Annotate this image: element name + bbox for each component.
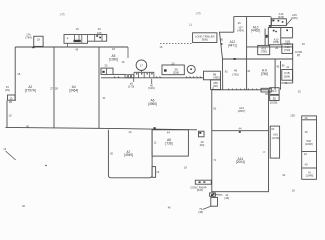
svg-text:[2667]: [2667] bbox=[238, 109, 246, 113]
svg-text:138: 138 bbox=[290, 113, 295, 117]
svg-text:[455]: [455] bbox=[214, 76, 220, 80]
svg-text:[756]: [756] bbox=[261, 72, 268, 76]
svg-text:[4471]: [4471] bbox=[228, 43, 237, 47]
svg-text:90: 90 bbox=[220, 38, 223, 42]
svg-text:[790]: [790] bbox=[261, 50, 267, 54]
svg-text:[46]: [46] bbox=[225, 196, 230, 200]
svg-text:[1018]: [1018] bbox=[272, 136, 280, 140]
svg-text:[1048]: [1048] bbox=[305, 142, 313, 146]
svg-text:B2: B2 bbox=[273, 96, 277, 100]
svg-text:28: 28 bbox=[55, 86, 58, 90]
svg-text:44: 44 bbox=[282, 173, 285, 177]
svg-text:B-2: B-2 bbox=[272, 89, 277, 93]
svg-text:[736]: [736] bbox=[165, 141, 172, 145]
svg-text:[48]: [48] bbox=[198, 210, 203, 214]
svg-text:90: 90 bbox=[271, 127, 274, 131]
svg-text:[94]: [94] bbox=[200, 143, 205, 147]
svg-text:[906]: [906] bbox=[202, 38, 208, 42]
svg-text:[4949]: [4949] bbox=[124, 153, 133, 157]
svg-text:15: 15 bbox=[302, 42, 305, 46]
svg-text:[296]: [296] bbox=[173, 71, 179, 75]
svg-text:45: 45 bbox=[276, 65, 279, 69]
svg-text:44: 44 bbox=[305, 116, 308, 120]
svg-text:40: 40 bbox=[22, 204, 25, 208]
svg-text:18: 18 bbox=[37, 38, 40, 42]
svg-text:145: 145 bbox=[195, 12, 201, 16]
svg-text:[790]: [790] bbox=[284, 48, 290, 52]
svg-text:11: 11 bbox=[154, 141, 157, 145]
svg-text:90: 90 bbox=[26, 125, 29, 129]
svg-text:44: 44 bbox=[167, 130, 170, 134]
svg-text:[945]: [945] bbox=[291, 16, 297, 20]
svg-text:15: 15 bbox=[298, 90, 301, 94]
svg-text:19: 19 bbox=[292, 189, 295, 193]
svg-text:[4960]: [4960] bbox=[148, 102, 157, 106]
svg-text:19: 19 bbox=[76, 27, 79, 31]
svg-text:P1B: P1B bbox=[284, 71, 289, 75]
svg-text:16: 16 bbox=[159, 45, 162, 49]
svg-text:45: 45 bbox=[75, 47, 78, 51]
svg-text:17: 17 bbox=[140, 63, 143, 67]
svg-text:30: 30 bbox=[110, 151, 113, 155]
svg-text:36: 36 bbox=[265, 92, 268, 96]
svg-text:[96]: [96] bbox=[213, 84, 218, 88]
svg-text:44: 44 bbox=[239, 127, 242, 131]
svg-text:40: 40 bbox=[168, 205, 171, 209]
svg-text:26: 26 bbox=[275, 46, 278, 50]
svg-text:[2004]: [2004] bbox=[236, 160, 245, 164]
svg-text:[179]: [179] bbox=[128, 85, 134, 89]
svg-text:[619]: [619] bbox=[149, 86, 155, 90]
svg-text:[P]: [P] bbox=[297, 53, 301, 57]
svg-text:40: 40 bbox=[305, 162, 308, 166]
svg-text:71: 71 bbox=[213, 158, 216, 162]
svg-text:145: 145 bbox=[59, 13, 65, 17]
svg-text:45: 45 bbox=[305, 130, 308, 134]
svg-text:46: 46 bbox=[238, 21, 241, 25]
svg-text:105: 105 bbox=[97, 31, 102, 35]
svg-text:[786]: [786] bbox=[273, 40, 279, 44]
svg-text:40: 40 bbox=[98, 27, 101, 31]
svg-text:92: 92 bbox=[213, 106, 216, 110]
svg-text:[384]: [384] bbox=[284, 74, 290, 78]
svg-text:18: 18 bbox=[17, 72, 20, 76]
svg-text:19: 19 bbox=[184, 165, 187, 169]
svg-text:16: 16 bbox=[122, 60, 125, 64]
svg-text:[494]: [494] bbox=[238, 29, 244, 33]
svg-text:[6x8]: [6x8] bbox=[197, 188, 203, 192]
svg-text:[4462]: [4462] bbox=[251, 29, 260, 33]
svg-text:41: 41 bbox=[286, 65, 289, 69]
svg-text:[946]: [946] bbox=[278, 15, 284, 19]
svg-text:48: 48 bbox=[234, 68, 237, 72]
svg-text:18: 18 bbox=[112, 47, 115, 51]
svg-text:[3464]: [3464] bbox=[69, 88, 78, 92]
svg-text:10: 10 bbox=[128, 130, 131, 134]
svg-text:14: 14 bbox=[189, 23, 193, 27]
svg-text:31: 31 bbox=[103, 96, 106, 100]
svg-text:[29]: [29] bbox=[5, 88, 10, 92]
svg-text:10: 10 bbox=[9, 114, 12, 118]
svg-text:[756]: [756] bbox=[233, 73, 239, 77]
svg-text:[2028]: [2028] bbox=[270, 101, 278, 105]
svg-text:20: 20 bbox=[171, 61, 174, 65]
svg-text:12: 12 bbox=[3, 147, 6, 151]
svg-text:30: 30 bbox=[104, 64, 107, 68]
svg-text:25: 25 bbox=[9, 100, 12, 104]
svg-text:80: 80 bbox=[282, 64, 285, 68]
svg-text:[784]: [784] bbox=[26, 35, 32, 39]
svg-text:27: 27 bbox=[50, 86, 53, 90]
svg-text:13: 13 bbox=[156, 170, 159, 174]
svg-text:[2757A]: [2757A] bbox=[25, 88, 36, 92]
svg-text:42: 42 bbox=[304, 152, 307, 156]
svg-text:[1090]: [1090] bbox=[109, 57, 118, 61]
svg-text:10: 10 bbox=[247, 69, 250, 73]
svg-text:91: 91 bbox=[225, 69, 228, 73]
svg-text:[1046]: [1046] bbox=[306, 173, 314, 177]
